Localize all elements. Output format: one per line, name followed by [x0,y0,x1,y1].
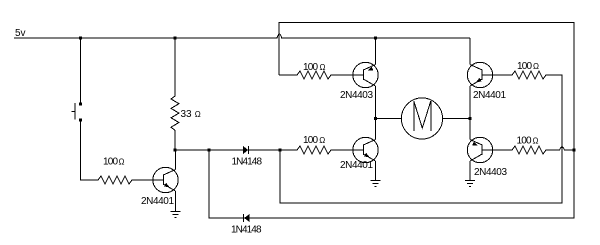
svg-text:2N4401: 2N4401 [141,196,174,207]
svg-text:1N4148: 1N4148 [231,225,262,236]
svg-text:2N4403: 2N4403 [340,90,373,101]
svg-text:100: 100 [517,61,533,72]
svg-text:100: 100 [103,157,119,168]
svg-text:100: 100 [303,135,319,146]
svg-text:2N4401: 2N4401 [473,90,506,101]
svg-text:100: 100 [303,62,319,73]
svg-text:Ω: Ω [319,136,325,145]
svg-text:Ω: Ω [533,137,539,146]
svg-text:2N4401: 2N4401 [340,160,373,171]
svg-text:Ω: Ω [195,110,201,119]
svg-text:1N4148: 1N4148 [232,157,263,168]
svg-text:Ω: Ω [320,63,326,72]
svg-text:5v: 5v [15,28,26,39]
svg-text:Ω: Ω [119,158,125,167]
svg-text:100: 100 [517,136,533,147]
svg-text:33: 33 [181,109,193,120]
svg-text:Ω: Ω [533,62,539,71]
svg-text:2N4403: 2N4403 [474,167,507,178]
